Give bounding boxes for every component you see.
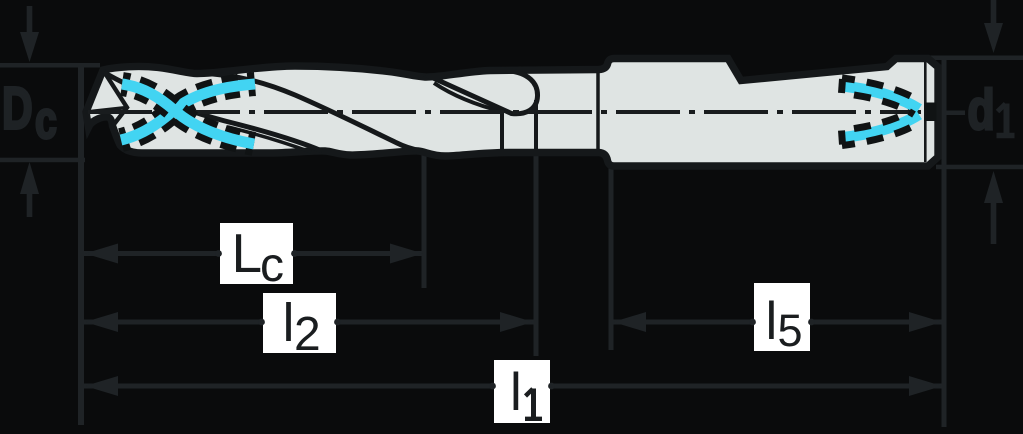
svg-text:d: d [968, 78, 995, 142]
svg-text:l: l [766, 292, 778, 351]
coolant channel X band B cyan [121, 84, 255, 140]
label Lc [232, 222, 285, 292]
flute edge 1 [104, 73, 322, 152]
dimension line l1 [84, 376, 943, 396]
svg-text:L: L [232, 222, 263, 284]
label d1 [968, 78, 1015, 142]
extension line right vertical (shank end) [942, 57, 947, 427]
label box Lc [220, 223, 293, 284]
extension line Dc bottom [0, 158, 85, 163]
flute runout cap edge vertical [534, 100, 538, 151]
dimension line l5 [612, 312, 943, 332]
tip chisel edge [86, 108, 127, 113]
svg-text:D: D [2, 75, 33, 142]
extension line d1 top [930, 56, 1023, 61]
extension line l5 left vertical [609, 168, 614, 350]
flute runout teardrop [431, 70, 538, 114]
flute edge 1 margin line [228, 127, 311, 152]
dimension line end dots at label boxes [215, 250, 815, 389]
coolant exit band upper cyan [843, 86, 919, 109]
extension line l2 right vertical [534, 98, 539, 356]
svg-text:5: 5 [778, 305, 803, 356]
tip facet edge [103, 70, 127, 126]
label l1 [510, 363, 542, 422]
coolant exit band lower edge dashes inner [844, 109, 914, 130]
coolant channel X band A cyan [122, 84, 254, 144]
coolant exit band cap bars [842, 79, 843, 93]
extension line Dc top [0, 63, 100, 68]
extension line left vertical (tip) [78, 64, 84, 425]
label Dc [2, 75, 57, 150]
dimension arrow d1 bottom (up) [984, 171, 1003, 244]
coolant exit band upper edge dashes inner [844, 94, 914, 115]
label box l2 [263, 293, 336, 353]
svg-text:2: 2 [294, 308, 321, 361]
dimension arrow Dc bottom (up) [20, 162, 39, 217]
dimension line Lc [84, 244, 424, 264]
extension line d1 bottom [936, 165, 1023, 170]
extension line Lc right vertical [422, 150, 427, 288]
svg-text:l: l [510, 363, 522, 422]
leader line d1 [944, 111, 965, 116]
neck step inner line [596, 72, 600, 149]
coolant exit band lower edge dashes outer [842, 122, 920, 146]
svg-text:l: l [283, 293, 295, 353]
shank end chamfer line [924, 62, 927, 162]
coolant exit band lower cyan [843, 115, 919, 138]
coolant channel X band A dashes [122, 84, 254, 144]
dimension arrow Dc top (down) [20, 6, 39, 62]
label l2 [283, 293, 321, 361]
svg-text:c: c [260, 239, 284, 292]
flute runout lower line [434, 83, 502, 112]
flute heel vertical [500, 112, 504, 150]
label box l5 [754, 283, 810, 351]
drill body silhouette [86, 59, 938, 167]
label box l1 [494, 360, 550, 423]
svg-text:c: c [35, 90, 57, 149]
dimension line l2 [84, 312, 534, 332]
flute edge 2 [200, 73, 420, 151]
centerline [88, 110, 921, 114]
dimension arrow d1 top (down) [984, 0, 1003, 53]
coolant channel X band B dashes [121, 84, 255, 140]
coolant exit tip dash [924, 103, 937, 122]
coolant exit band upper edge dashes outer [842, 78, 920, 102]
label l5 [766, 292, 803, 356]
